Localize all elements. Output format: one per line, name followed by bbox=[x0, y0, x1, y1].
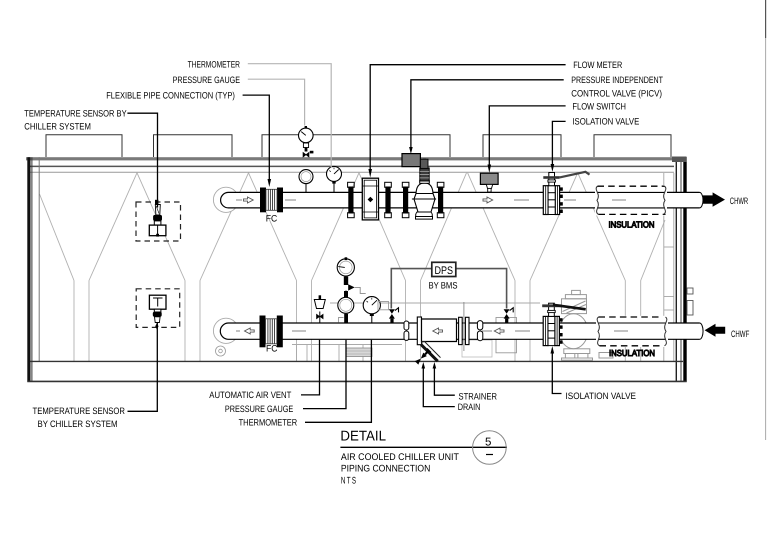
inner right wall panel bbox=[664, 173, 674, 361]
hatched support block bbox=[346, 348, 372, 357]
stem and handle bbox=[549, 173, 555, 186]
svg-text:CHWR: CHWR bbox=[730, 196, 749, 206]
flow arrow right bbox=[244, 197, 254, 203]
flow arrow left bbox=[245, 328, 255, 334]
CHWR arrow bbox=[703, 192, 749, 206]
pipe coupling left of strainer bbox=[404, 321, 409, 340]
V brace 6 bbox=[578, 173, 626, 281]
column 6 bbox=[624, 281, 626, 362]
label FLEXIBLE PIPE CONNECTION (TYP) bbox=[106, 91, 271, 187]
svg-text:CONTROL VALVE (PICV): CONTROL VALVE (PICV) bbox=[571, 88, 662, 98]
column 1 bbox=[73, 281, 75, 362]
V-coil braces and columns bbox=[40, 173, 666, 361]
elbow bbox=[213, 318, 238, 343]
svg-text:PRESSURE GAUGE: PRESSURE GAUGE bbox=[225, 404, 293, 414]
left wall bbox=[27, 157, 30, 382]
pipe coupling bbox=[477, 321, 482, 341]
isolation valve (bottom) bbox=[542, 303, 586, 345]
svg-text:ISOLATION VALVE: ISOLATION VALVE bbox=[572, 117, 639, 127]
unit frame bbox=[26, 135, 693, 382]
label DRAIN bbox=[422, 362, 481, 412]
label FLOW METER bbox=[368, 60, 622, 178]
label THERMOMETER (bottom) bbox=[239, 340, 372, 428]
detail bubble bbox=[473, 431, 507, 465]
strainer bbox=[415, 317, 457, 365]
svg-text:TEMPERATURE SENSOR: TEMPERATURE SENSOR bbox=[33, 406, 126, 416]
V brace 2 bbox=[137, 173, 185, 281]
svg-text:ISOLATION VALVE: ISOLATION VALVE bbox=[566, 391, 637, 401]
flow arrow right near flow switch bbox=[483, 197, 493, 203]
svg-text:PRESSURE INDEPENDENT: PRESSURE INDEPENDENT bbox=[571, 75, 663, 85]
rail line upper bbox=[30, 165, 674, 167]
DPS tap left bbox=[389, 308, 399, 323]
pressure gauge assembly (top pipe) bbox=[299, 126, 314, 192]
column 5 bbox=[514, 281, 516, 362]
rail line lower bbox=[30, 171, 674, 173]
svg-text:FC: FC bbox=[266, 344, 278, 354]
label STRAINER bbox=[433, 362, 498, 402]
svg-text:STRAINER: STRAINER bbox=[459, 392, 498, 402]
drain valve bbox=[415, 348, 431, 364]
support rail under bottom pipe bbox=[292, 303, 540, 361]
svg-text:NTS: NTS bbox=[341, 475, 357, 486]
Y leg bbox=[422, 342, 426, 345]
label AUTOMATIC AIR VENT bbox=[209, 340, 319, 400]
centre dashes bbox=[236, 330, 530, 332]
floor line bbox=[30, 360, 683, 362]
svg-text:BY CHILLER SYSTEM: BY CHILLER SYSTEM bbox=[38, 419, 118, 429]
label ISOLATION VALVE (top) bbox=[551, 117, 640, 173]
svg-text:5: 5 bbox=[485, 437, 491, 449]
thermometer (top pipe) bbox=[327, 166, 342, 192]
flexible pipe connection FC (bottom) bbox=[260, 316, 283, 354]
flow meter bbox=[348, 178, 392, 220]
svg-text:PRESSURE GAUGE: PRESSURE GAUGE bbox=[173, 75, 240, 85]
CHWF arrow bbox=[705, 324, 750, 339]
pipe body bbox=[229, 323, 700, 339]
chiller unit background structure bbox=[40, 173, 674, 361]
support frame under strainer right bbox=[496, 318, 517, 353]
label PRESSURE GAUGE (bottom) bbox=[225, 340, 346, 414]
small motor circle on floor bbox=[216, 346, 226, 356]
flexible pipe connection FC (top) bbox=[260, 188, 283, 224]
pump behind bottom pipe right bbox=[559, 290, 613, 360]
svg-text:PIPING CONNECTION: PIPING CONNECTION bbox=[341, 464, 430, 475]
actuator neck bbox=[420, 168, 429, 181]
DPS tap right bbox=[504, 308, 514, 323]
svg-text:CHWF: CHWF bbox=[731, 329, 750, 339]
svg-text:FLOW SWITCH: FLOW SWITCH bbox=[572, 101, 626, 111]
svg-text:FLOW METER: FLOW METER bbox=[573, 60, 622, 70]
foot bbox=[416, 212, 433, 217]
flow arrow left mid bbox=[494, 328, 504, 334]
svg-text:INSULATION: INSULATION bbox=[609, 219, 655, 229]
pipe body bbox=[229, 192, 700, 208]
DPS box and wiring bbox=[391, 262, 506, 308]
svg-text:CHILLER SYSTEM: CHILLER SYSTEM bbox=[24, 121, 91, 131]
svg-text:DETAIL: DETAIL bbox=[340, 428, 386, 444]
svg-text:THERMOMETER: THERMOMETER bbox=[239, 418, 298, 428]
strainer right flanges bbox=[459, 302, 469, 351]
svg-text:DPS: DPS bbox=[435, 265, 454, 277]
svg-text:DRAIN: DRAIN bbox=[458, 402, 481, 412]
right wall bbox=[675, 157, 677, 382]
svg-text:TEMPERATURE SENSOR BY: TEMPERATURE SENSOR BY bbox=[24, 109, 126, 119]
column 2 bbox=[184, 281, 186, 362]
V brace 3 bbox=[249, 173, 297, 281]
label THERMOMETER (top) bbox=[188, 60, 332, 168]
label TEMPERATURE SENSOR BY CHILLER SYSTEM (bottom left) bbox=[33, 323, 158, 429]
label PRESSURE GAUGE (top) bbox=[173, 75, 305, 126]
svg-text:INSULATION: INSULATION bbox=[609, 348, 655, 358]
temperature sensor (bottom, in dashed box) bbox=[136, 289, 180, 330]
pressure gauge assembly (bottom) bbox=[337, 257, 366, 323]
column 4 bbox=[405, 281, 407, 362]
label ISOLATION VALVE (bottom) bbox=[551, 346, 637, 401]
svg-text:THERMOMETER: THERMOMETER bbox=[188, 60, 241, 70]
flow switch bbox=[480, 173, 498, 192]
V brace 1 bbox=[40, 194, 75, 281]
V brace 4 bbox=[359, 173, 406, 281]
title DETAIL bbox=[340, 428, 507, 486]
svg-text:FLEXIBLE PIPE CONNECTION (TYP): FLEXIBLE PIPE CONNECTION (TYP) bbox=[106, 91, 235, 101]
elbow bbox=[213, 187, 238, 212]
thermometer (bottom) bbox=[363, 297, 388, 323]
svg-text:BY BMS: BY BMS bbox=[429, 280, 458, 290]
top cap rail bbox=[26, 157, 674, 160]
centre dashes bbox=[236, 199, 576, 201]
column 3 bbox=[296, 281, 298, 362]
hex mid bbox=[414, 194, 435, 213]
dome bbox=[416, 183, 433, 194]
insulation (top pipe) bbox=[595, 185, 667, 229]
label FLOW SWITCH bbox=[488, 101, 627, 173]
insulation (bottom pipe) bbox=[596, 316, 668, 358]
page border right bbox=[765, 0, 767, 38]
actuator box bbox=[402, 154, 420, 167]
small rects on right wall bbox=[687, 288, 693, 294]
label TEMPERATURE SENSOR BY CHILLER SYSTEM (top left) bbox=[24, 109, 157, 208]
isolation valve (top) bbox=[543, 172, 589, 215]
automatic air vent bbox=[314, 295, 325, 323]
svg-text:FC: FC bbox=[266, 214, 278, 224]
mounting brackets on top bbox=[46, 135, 671, 157]
label PRESSURE INDEPENDENT CONTROL VALVE (PICV) bbox=[409, 75, 663, 154]
temperature sensor (top, in dashed box) bbox=[136, 200, 181, 241]
V brace 5 bbox=[468, 173, 515, 281]
base line bbox=[27, 380, 686, 382]
svg-text:AIR COOLED CHILLER UNIT: AIR COOLED CHILLER UNIT bbox=[341, 452, 459, 463]
svg-text:AUTOMATIC AIR VENT: AUTOMATIC AIR VENT bbox=[209, 390, 291, 400]
PICV valve body bbox=[402, 154, 444, 220]
